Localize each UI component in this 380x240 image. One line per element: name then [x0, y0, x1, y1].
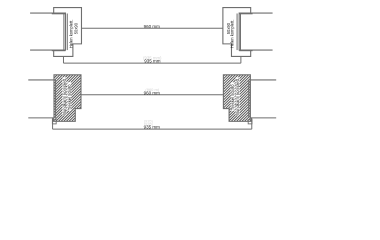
bottom-left label white band	[62, 77, 66, 115]
bottom-left sill block (hatched)	[53, 75, 81, 122]
top dimension line 935	[63, 62, 240, 64]
bottom 935 extension right	[251, 118, 253, 129]
leaf end double top	[52, 13, 66, 15]
top-right jamb profile (mirror)	[223, 8, 251, 57]
svg-text:(960 m): (960 m)	[145, 87, 159, 92]
svg-text:50x90: 50x90	[226, 22, 231, 34]
leaf end double bottom right	[239, 50, 252, 52]
top-right jamb stop line	[236, 13, 238, 50]
bottom-right sill block (hatched, mirror)	[223, 75, 251, 122]
bottom-right block inner double line	[248, 80, 250, 118]
top-left door leaf (white-filled, open left end)	[30, 13, 65, 50]
svg-text:(935 mm): (935 mm)	[143, 56, 162, 61]
top 935 extension right	[240, 56, 242, 63]
bottom-left block inner double line	[55, 80, 57, 118]
top dimension line 960	[81, 27, 222, 29]
bottom-left hatch lines	[53, 75, 81, 122]
svg-text:Treskel 50x90: Treskel 50x90	[67, 84, 72, 111]
leaf end double top right	[239, 13, 252, 15]
bottom-left wall line upper	[28, 79, 54, 81]
top-left jamb stop line	[66, 13, 68, 50]
bottom-right wall line upper	[250, 79, 276, 81]
top-right door leaf	[239, 13, 272, 50]
bottom-left wall line lower	[28, 117, 53, 119]
top-left jamb profile	[54, 8, 82, 57]
bottom-right wall line lower	[251, 117, 276, 119]
bottom 935 extension left	[52, 118, 54, 129]
leaf inner edge line right	[239, 13, 241, 50]
leaf end double bottom	[52, 50, 66, 52]
svg-text:Treskel 50x90: Treskel 50x90	[230, 84, 235, 111]
bottom dimension line 935	[53, 128, 252, 130]
svg-text:Bundkarm komplett.: Bundkarm komplett.	[235, 78, 240, 115]
bottom dimension line 960	[81, 94, 223, 96]
svg-text:960 mm: 960 mm	[144, 24, 161, 29]
svg-text:50x90: 50x90	[73, 22, 78, 34]
leaf inner edge line left	[63, 13, 65, 50]
top 935 extension left	[62, 56, 64, 63]
bottom-right label white band	[236, 77, 240, 115]
svg-text:(935): (935)	[144, 121, 154, 126]
corner box bottom-right	[248, 120, 252, 124]
bottom-right hatch lines	[223, 75, 251, 122]
corner box bottom-left	[52, 120, 56, 124]
